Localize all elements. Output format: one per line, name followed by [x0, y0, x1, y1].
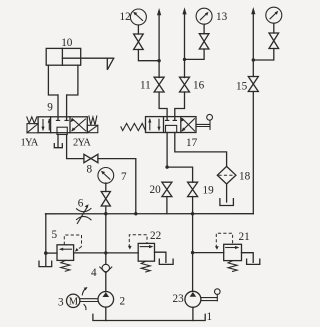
wire main line left drop — [45, 214, 47, 266]
node J2 — [183, 58, 186, 61]
rotation arrow — [82, 287, 87, 310]
node J3 — [252, 58, 255, 61]
svg-text:23: 23 — [173, 293, 185, 305]
svg-text:4: 4 — [91, 267, 97, 279]
svg-text:18: 18 — [239, 171, 251, 183]
node J7 — [191, 212, 194, 215]
wire valve5 outlet — [46, 252, 57, 254]
relief valve 22 — [128, 230, 161, 272]
svg-text:20: 20 — [150, 184, 162, 196]
svg-text:M: M — [69, 297, 79, 308]
shutoff valve under gauge 14 — [269, 33, 279, 49]
shutoff valve 15 — [236, 77, 258, 93]
node J8 — [104, 251, 107, 254]
wire gauge13 to riser B2 — [185, 49, 205, 59]
svg-text:7: 7 — [121, 171, 127, 183]
wire cylinder leg A — [57, 95, 59, 120]
wire valve11 to valve17 port A — [159, 92, 167, 120]
relief valve 5 — [52, 229, 82, 271]
gauge 7 — [98, 168, 127, 184]
wire filter to tank — [226, 184, 228, 202]
svg-text:8: 8 — [87, 164, 93, 176]
wire valve17 P down — [166, 133, 168, 168]
wire valve9 P to valve 8 — [67, 135, 84, 159]
wire valve19 to main line — [192, 197, 194, 214]
wire gauge12 to riser B1 — [138, 50, 159, 61]
main pressure line — [46, 213, 254, 215]
wire riser B3 with arrow — [251, 7, 255, 77]
node J5 — [104, 212, 107, 215]
svg-text:21: 21 — [239, 231, 250, 243]
gauge 12 — [120, 9, 147, 25]
throttle valve 6 — [77, 198, 92, 224]
svg-text:19: 19 — [203, 185, 215, 197]
wire gauge12 stem — [137, 25, 139, 34]
gauge 14 — [266, 7, 282, 23]
shutoff valve 8 — [84, 154, 98, 175]
wire pump23 suction — [192, 307, 194, 320]
svg-text:2YA: 2YA — [73, 137, 91, 148]
wire pump2 suction — [105, 307, 107, 320]
node J6 — [165, 165, 168, 168]
svg-text:17: 17 — [186, 137, 198, 149]
node J9 — [191, 251, 194, 254]
wire gauge13 stem — [203, 24, 205, 34]
gauge 13 — [196, 8, 227, 24]
tank under valve 9 — [54, 144, 62, 148]
pump 23 — [173, 289, 221, 307]
svg-text:2: 2 — [120, 296, 126, 308]
tank at valve 21 — [247, 259, 260, 264]
svg-text:9: 9 — [47, 102, 53, 114]
node J4 — [134, 212, 137, 215]
wire valve16 to valve17 port B — [175, 92, 185, 120]
svg-text:6: 6 — [78, 198, 84, 210]
tank at valve 22 — [159, 259, 173, 264]
shutoff valve 19 — [188, 182, 214, 196]
wire pump23 riser — [192, 214, 194, 292]
wire valve22 outlet to tank — [155, 252, 166, 262]
node J10 — [44, 251, 48, 255]
coupling shaft — [80, 299, 98, 302]
shutoff valve under gauge 7 — [101, 192, 110, 207]
cylinder 10 — [46, 37, 114, 95]
svg-text:15: 15 — [236, 81, 248, 93]
svg-text:3: 3 — [58, 297, 64, 309]
shutoff valve 16 — [180, 77, 205, 92]
svg-text:16: 16 — [193, 80, 205, 92]
wire valve21 outlet to tank — [242, 253, 254, 263]
wire valve17 T to filter — [175, 133, 227, 167]
wire pump2 riser — [105, 214, 107, 292]
wire cylinder leg B — [66, 95, 68, 120]
wire valve20 to main line — [166, 197, 168, 214]
filter 18 — [217, 166, 250, 184]
svg-text:13: 13 — [216, 11, 228, 23]
wire riser B1 with arrow — [157, 8, 161, 78]
wire valve9 T to tank — [57, 135, 59, 147]
reservoir 1 — [93, 311, 212, 323]
wire valve8 to main line — [98, 159, 136, 214]
wire branch J6 to valve 19 — [167, 167, 192, 182]
wire gauge14 to riser B3 — [253, 49, 273, 61]
wire gauge14 stem — [273, 23, 275, 33]
wire gauge7 branch to main line — [105, 206, 107, 214]
svg-text:1YA: 1YA — [21, 137, 39, 148]
svg-text:10: 10 — [61, 37, 73, 49]
svg-text:11: 11 — [140, 80, 151, 92]
node J1 — [157, 59, 160, 62]
svg-text:1: 1 — [207, 311, 213, 323]
check valve 4 — [91, 264, 112, 279]
lever valve 17 — [121, 114, 213, 149]
wire riser B3 lower — [252, 92, 254, 214]
tank under filter — [220, 199, 234, 206]
motor 3 — [58, 294, 80, 308]
solenoid valve 9 — [21, 102, 98, 149]
shutoff valve 20 — [150, 182, 172, 196]
relief valve 21 — [215, 231, 250, 271]
tank at valve 5 — [39, 261, 52, 266]
svg-text:22: 22 — [150, 230, 161, 242]
svg-text:5: 5 — [52, 229, 58, 241]
shutoff valve under gauge 13 — [199, 34, 209, 49]
shutoff valve under gauge 12 — [134, 34, 144, 50]
shutoff valve 11 — [140, 77, 164, 92]
svg-text:12: 12 — [120, 11, 131, 23]
wire valve5 to riser and valve22 — [74, 252, 139, 254]
pump 2 — [98, 292, 125, 308]
wire riser B2 with arrow — [182, 7, 186, 77]
wire branch to valve 21 — [193, 252, 224, 254]
wire gauge7 stem — [105, 183, 107, 192]
